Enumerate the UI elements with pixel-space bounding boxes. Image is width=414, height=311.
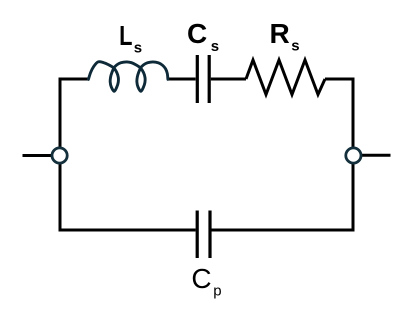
svg-text:C: C xyxy=(191,263,211,294)
svg-text:R: R xyxy=(270,18,290,49)
svg-text:L: L xyxy=(119,21,132,52)
svg-text:s: s xyxy=(134,39,142,56)
svg-text:s: s xyxy=(291,38,299,55)
svg-text:s: s xyxy=(211,38,219,55)
svg-text:p: p xyxy=(213,282,221,299)
svg-text:C: C xyxy=(187,18,207,49)
